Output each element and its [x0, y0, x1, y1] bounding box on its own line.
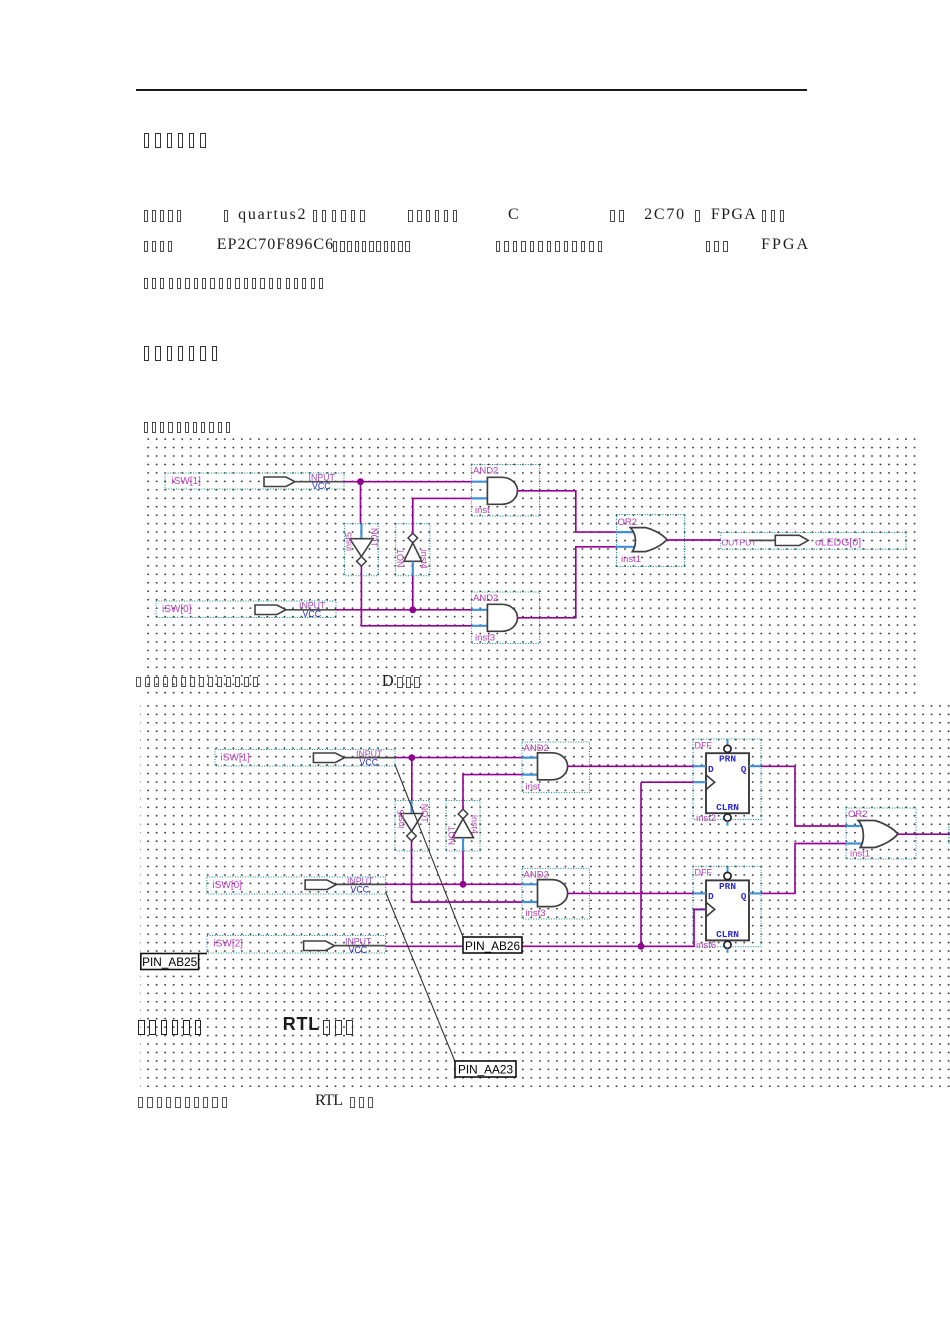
wire junction down to NOT inst5 [360, 482, 362, 524]
svg-text:CLRN: CLRN [716, 929, 739, 940]
svg-text:iSW[0]: iSW[0] [213, 880, 243, 891]
svg-text:OR2: OR2 [618, 517, 638, 528]
svg-text:inst5: inst5 [396, 810, 406, 829]
svg-text:inst2: inst2 [696, 813, 716, 824]
svg-text:inst4: inst4 [419, 550, 429, 569]
wire AND2 inst3 output to OR2 inst1 lower input [518, 547, 616, 618]
svg-text:inst1: inst1 [621, 554, 641, 565]
svg-text:PRN: PRN [719, 754, 736, 765]
svg-text:iSW[1]: iSW[1] [221, 752, 251, 763]
svg-text:inst3: inst3 [526, 908, 546, 919]
NOT gate inst4 (schematic 2) [446, 801, 480, 852]
svg-text:PIN_AB26: PIN_AB26 [465, 939, 521, 953]
svg-text:Q: Q [741, 891, 747, 902]
svg-text:PRN: PRN [719, 881, 736, 892]
svg-text:OR2: OR2 [848, 809, 868, 820]
wire NOT inst4 input down to iSW[0] wire (schematic 2) [462, 851, 464, 884]
AND2 gate inst3 [472, 592, 540, 644]
svg-text:VCC: VCC [303, 609, 322, 619]
D flip-flop DFF inst2 [693, 739, 761, 826]
input pin iSW[0] (schematic 2) [207, 876, 386, 895]
wire NOT inst4 output up to AND2 inst lower input [413, 498, 472, 533]
wire DFF inst6 Q to OR2 inst1 lower input (schematic 2) [761, 844, 846, 894]
input pin iSW[0] [156, 601, 336, 620]
svg-text:inst: inst [526, 782, 541, 793]
leader line iSW[0] to PIN_AA23 [386, 892, 455, 1062]
wire iSW[1] to AND2 inst (schematic 2) [395, 757, 522, 759]
pin location label PIN_AA23 [455, 1061, 516, 1077]
NOT gate inst4 [396, 524, 430, 576]
svg-text:D: D [708, 764, 714, 775]
output pin oLEDG[0] [721, 533, 906, 550]
svg-text:VCC: VCC [312, 481, 331, 491]
junction on iSW[1] wire (schematic 2) [408, 754, 415, 761]
wire iSW[0] to AND2 inst3 upper input (schematic 2) [386, 883, 522, 885]
AND2 gate inst (schematic 2) [522, 742, 590, 793]
NOT gate inst5 [344, 524, 380, 576]
leader line iSW[1] to PIN_AB26 [395, 765, 463, 937]
junction clock net [638, 943, 645, 950]
svg-text:VCC: VCC [351, 884, 370, 894]
svg-text:D: D [708, 891, 714, 902]
svg-text:inst: inst [475, 505, 490, 516]
wire AND2 inst output to DFF inst2 D input [568, 765, 693, 767]
svg-text:iSW[1]: iSW[1] [172, 476, 202, 487]
svg-text:iSW[0]: iSW[0] [162, 604, 192, 615]
svg-text:PIN_AA23: PIN_AA23 [458, 1063, 514, 1077]
wire AND2 inst3 output to DFF inst6 D input [568, 892, 693, 894]
wire NOT inst4 input down to iSW[0] wire [412, 576, 414, 610]
pin location label PIN_AB26 [463, 937, 522, 953]
input pin iSW[2] [207, 936, 385, 955]
input pin iSW[1] (schematic 2) [215, 749, 395, 768]
svg-text:NOT: NOT [420, 804, 430, 824]
wire iSW[0] to AND2 inst3 upper input [336, 609, 472, 611]
svg-text:inst6: inst6 [696, 940, 716, 951]
svg-text:iSW[2]: iSW[2] [214, 938, 244, 949]
wire clock net riser to DFF inst2 [640, 782, 642, 946]
input pin iSW[1] [165, 473, 344, 492]
AND2 gate inst3 (schematic 2) [522, 868, 590, 919]
junction on iSW[0] wire [409, 606, 416, 613]
D flip-flop DFF inst6 [693, 866, 761, 953]
svg-text:Q: Q [741, 764, 747, 775]
wire DFF inst2 Q to OR2 inst1 upper input (schematic 2) [761, 766, 846, 826]
svg-text:inst1: inst1 [850, 849, 870, 860]
clipped output pin at right edge [948, 827, 950, 844]
wire iSW[2] clock net [385, 945, 694, 947]
AND2 gate inst [472, 465, 540, 517]
wire AND2 inst output to OR2 inst1 upper input [518, 491, 616, 532]
svg-text:inst4: inst4 [470, 815, 480, 834]
svg-text:VCC: VCC [360, 757, 379, 767]
wire junction down to NOT inst5 (schematic 2) [411, 758, 413, 801]
svg-text:OUTPUT: OUTPUT [722, 537, 757, 547]
svg-text:DFF: DFF [695, 868, 713, 878]
svg-text:AND2: AND2 [473, 593, 498, 604]
wire iSW[1] to AND2 inst [344, 481, 472, 483]
svg-text:PIN_AB25: PIN_AB25 [142, 955, 198, 969]
svg-text:NOT: NOT [396, 548, 406, 568]
svg-text:NOT: NOT [369, 528, 379, 548]
svg-text:NOT: NOT [447, 826, 457, 846]
wire NOT inst4 output up to AND2 inst lower input (schematic 2) [463, 775, 522, 810]
junction on iSW[1] wire [357, 478, 364, 485]
wire clock net to DFF inst2 clk [641, 781, 693, 783]
wire OR2 inst1 output to output pin [667, 539, 721, 541]
svg-text:VCC: VCC [349, 945, 368, 955]
svg-text:inst5: inst5 [344, 532, 354, 551]
wire OR2 inst1 output to page edge [898, 833, 950, 835]
svg-text:inst3: inst3 [475, 633, 495, 644]
svg-text:oLEDG[0]: oLEDG[0] [815, 537, 861, 549]
svg-text:CLRN: CLRN [716, 802, 739, 813]
svg-text:AND2: AND2 [473, 466, 498, 477]
svg-text:DFF: DFF [695, 741, 713, 751]
OR2 gate inst1 (schematic 2) [846, 808, 916, 860]
wire NOT inst5 output to AND2 inst3 lower input (schematic 2) [412, 841, 523, 902]
wire NOT inst5 output to AND2 inst3 lower input [361, 566, 471, 626]
junction NOT inst4 tap on iSW[0] wire (schematic 2) [460, 881, 467, 888]
OR2 gate inst1 [616, 515, 685, 567]
wire clock net junction to DFF inst6 clk [641, 909, 706, 946]
NOT gate inst5 (schematic 2) [395, 801, 430, 852]
pin location label PIN_AB25 [141, 954, 207, 970]
